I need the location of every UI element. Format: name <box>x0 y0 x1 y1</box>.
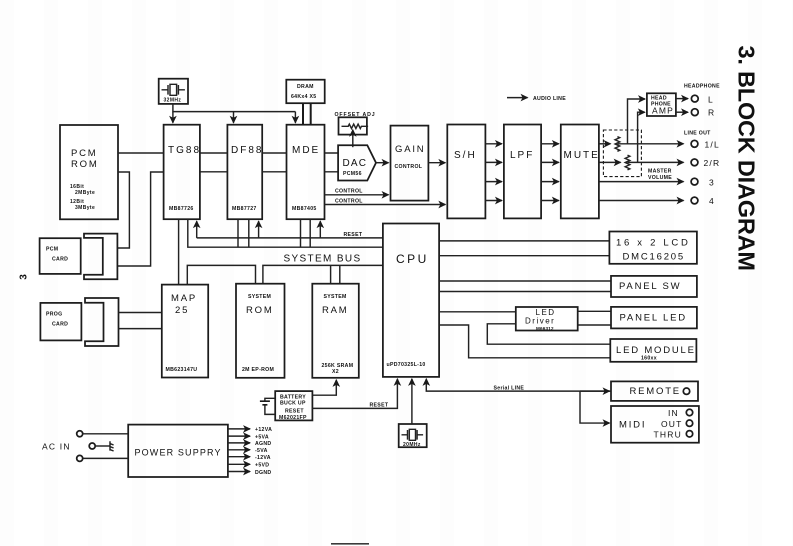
wire DRAM to MDE <box>303 103 311 125</box>
wire power rail -12VA <box>228 455 271 461</box>
wire PCM ROM to TG88 <box>118 152 164 154</box>
wire system bus left segment <box>187 265 255 284</box>
block MIDI IN OUT THRU <box>611 406 699 443</box>
svg-text:160xx: 160xx <box>641 356 657 362</box>
jack line out 3 <box>691 177 715 187</box>
wire data bus chips to CPU <box>188 219 383 247</box>
svg-text:BUCK UP: BUCK UP <box>280 400 306 406</box>
block REMOTE <box>611 381 698 401</box>
wire power rail +5VA <box>228 434 269 440</box>
IC MDE <box>287 125 325 220</box>
svg-text:CONTROL: CONTROL <box>395 164 423 170</box>
svg-text:4: 4 <box>709 196 715 206</box>
svg-text:DF88: DF88 <box>231 145 263 156</box>
wire MUTE out 1 to pot <box>599 143 611 145</box>
svg-text:CONTROL: CONTROL <box>335 199 363 205</box>
svg-text:-12VA: -12VA <box>255 455 271 461</box>
block POWER SUPPRY <box>128 425 228 477</box>
svg-text:DAC: DAC <box>343 158 368 169</box>
svg-text:THRU: THRU <box>654 430 682 440</box>
svg-text:25: 25 <box>175 305 189 316</box>
svg-text:L: L <box>708 95 714 105</box>
svg-text:OUT: OUT <box>661 419 683 429</box>
svg-text:2MByte: 2MByte <box>75 190 95 196</box>
terminal AC hot <box>77 431 129 437</box>
svg-text:3MByte: 3MByte <box>75 205 95 211</box>
label LINE OUT <box>684 131 711 137</box>
wire serial line CPU to REMOTE and MIDI <box>426 379 611 423</box>
svg-text:2/R: 2/R <box>704 158 721 168</box>
svg-text:CARD: CARD <box>52 257 68 263</box>
wire LPF to MUTE 4 channels <box>541 144 559 201</box>
svg-text:64Kx4 X5: 64Kx4 X5 <box>291 94 316 100</box>
wire TG88 to MAP25 <box>178 219 180 284</box>
crystal X2 20MHz <box>399 424 427 448</box>
svg-text:Serial LINE: Serial LINE <box>494 386 525 392</box>
wire pot2 to line out 2/R <box>628 161 684 163</box>
wire PCM card slot to TG88 <box>117 172 163 266</box>
svg-text:PANEL LED: PANEL LED <box>620 312 687 323</box>
svg-text:uPD70325L-10: uPD70325L-10 <box>387 362 426 368</box>
svg-text:CPU: CPU <box>396 252 429 266</box>
connector PROG card slot <box>85 298 119 346</box>
svg-text:X2: X2 <box>332 369 339 375</box>
svg-text:MIDI: MIDI <box>619 420 646 431</box>
block S/H <box>447 125 485 219</box>
wire CPU to LED MODULE <box>439 325 610 358</box>
svg-text:MB87727: MB87727 <box>232 206 257 212</box>
wire system bus right segment <box>263 265 383 283</box>
battery BT1 <box>260 398 275 414</box>
svg-text:VOLUME: VOLUME <box>648 175 672 181</box>
wire MDE to DAC <box>325 153 339 172</box>
svg-text:LED MODULE: LED MODULE <box>616 345 696 356</box>
svg-text:PCM: PCM <box>46 247 58 253</box>
wire LED driver to PANEL LED <box>578 311 611 325</box>
svg-text:IN: IN <box>668 408 679 418</box>
svg-text:MDE: MDE <box>292 145 320 156</box>
svg-text:AC IN: AC IN <box>42 442 71 452</box>
svg-text:MASTER: MASTER <box>648 169 672 175</box>
svg-text:M62021FP: M62021FP <box>279 415 307 421</box>
block LED MODULE 160xx <box>610 339 696 362</box>
block 16 x 2 LCD DMC16205 <box>609 232 697 264</box>
svg-text:-5VA: -5VA <box>255 448 268 454</box>
svg-text:SYSTEM: SYSTEM <box>324 294 347 300</box>
IC DF88 <box>227 125 263 220</box>
wire power rail DGND <box>228 470 272 476</box>
svg-text:GAIN: GAIN <box>395 144 425 155</box>
IC TG88 <box>164 125 201 220</box>
jack line out 4 <box>691 196 715 206</box>
wire RESET bus CPU to TG88 DF88 MDE <box>197 221 383 238</box>
wire 32MHz clock to TG88 DF88 MDE <box>173 104 296 123</box>
svg-text:MUTE: MUTE <box>564 150 600 161</box>
IC LED Driver M66312 <box>516 307 578 331</box>
block SYSTEM RAM <box>312 284 359 378</box>
svg-text:DMC16205: DMC16205 <box>623 252 685 263</box>
svg-text:3. BLOCK DIAGRAM: 3. BLOCK DIAGRAM <box>734 46 760 271</box>
block DRAM 64Kx4 X5 <box>286 80 324 104</box>
wire CPU to LCD <box>439 241 609 256</box>
svg-text:MAP: MAP <box>171 293 197 304</box>
block PANEL SW <box>611 276 697 297</box>
title 3. BLOCK DIAGRAM <box>734 46 760 271</box>
wire power rail +12VA <box>228 427 272 433</box>
svg-text:DGND: DGND <box>255 470 271 476</box>
wire CPU to PANEL SW <box>439 281 611 292</box>
label SYSTEM BUS <box>284 254 362 265</box>
svg-text:PROG: PROG <box>46 312 62 318</box>
master volume dashed box <box>603 130 672 181</box>
svg-text:SYSTEM BUS: SYSTEM BUS <box>284 254 362 265</box>
svg-text:S/H: S/H <box>454 150 477 161</box>
svg-text:+12VA: +12VA <box>255 427 272 433</box>
svg-text:ROM: ROM <box>71 159 99 170</box>
svg-text:CONTROL: CONTROL <box>335 189 363 195</box>
svg-text:M66312: M66312 <box>536 326 554 331</box>
svg-text:MB87405: MB87405 <box>292 206 317 212</box>
jack line out 1/L <box>691 140 720 150</box>
svg-text:RESET: RESET <box>344 232 363 238</box>
wire pot1 to line out 1/L <box>617 143 683 145</box>
block GAIN CONTROL <box>391 126 429 201</box>
svg-text:+5VA: +5VA <box>255 434 269 440</box>
svg-text:AGND: AGND <box>255 441 271 447</box>
block PANEL LED <box>611 307 697 329</box>
svg-text:RESET: RESET <box>285 409 304 415</box>
svg-text:16 x 2 LCD: 16 x 2 LCD <box>616 238 691 249</box>
svg-text:2M EP-ROM: 2M EP-ROM <box>242 367 274 373</box>
wire LED driver to LED MODULE <box>487 324 610 344</box>
svg-text:PCM: PCM <box>71 148 98 159</box>
trimmer OFFSET ADJ <box>335 112 376 135</box>
svg-text:REMOTE: REMOTE <box>630 386 681 397</box>
svg-text:LPF: LPF <box>510 150 534 161</box>
wire MUTE out 4 to line out 4 <box>599 200 684 202</box>
connector PCM card slot <box>84 234 117 280</box>
block PROG CARD <box>40 303 81 341</box>
wire DF88 to MDE <box>262 153 286 172</box>
svg-text:MB623147U: MB623147U <box>166 367 198 373</box>
wire OFFSET ADJ to DAC <box>352 130 354 147</box>
jack headphone R <box>676 108 715 118</box>
potentiometer master volume 1 <box>615 137 620 152</box>
wire power rail -5VA <box>228 448 268 454</box>
wire power rail +5VD <box>228 463 269 469</box>
svg-text:32MHz: 32MHz <box>164 98 182 104</box>
amplifier HEAD PHONE AMP <box>647 93 676 116</box>
svg-text:TG88: TG88 <box>168 145 201 156</box>
scan artifact line at page bottom <box>331 543 369 545</box>
svg-text:LINE OUT: LINE OUT <box>684 131 711 137</box>
svg-text:20MHz: 20MHz <box>403 442 421 448</box>
CPU uPD70325L-10 <box>383 224 439 377</box>
label HEADPHONE <box>684 84 720 90</box>
wire GAIN to S/H <box>428 162 445 164</box>
wire battery backup to SYSTEM RAM <box>312 380 336 395</box>
wire S/H to LPF 4 channels <box>485 144 502 201</box>
legend AUDIO LINE <box>507 96 566 102</box>
block PCM CARD <box>40 238 81 274</box>
crystal X1 32MHz <box>159 79 188 104</box>
svg-text:CARD: CARD <box>52 322 68 328</box>
svg-text:AUDIO LINE: AUDIO LINE <box>533 96 566 102</box>
wire CPU to LED driver <box>439 311 516 313</box>
svg-text:ROM: ROM <box>246 305 274 316</box>
label AC IN <box>42 442 71 452</box>
jack headphone L <box>676 95 714 105</box>
wire 20MHz to CPU <box>411 379 413 424</box>
wire TG88 to DF88 <box>200 153 228 172</box>
block SYSTEM ROM <box>236 284 285 378</box>
block MUTE <box>561 125 600 219</box>
jack line out 2/R <box>691 158 720 168</box>
wire CONTROL MDE to S/H <box>325 199 446 205</box>
svg-text:PCM56: PCM56 <box>343 171 362 177</box>
wire power rail AGND <box>228 441 272 447</box>
wire DAC to GAIN <box>376 162 389 164</box>
svg-text:SYSTEM: SYSTEM <box>248 294 271 300</box>
svg-text:POWER SUPPRY: POWER SUPPRY <box>135 448 222 458</box>
battery backup block M62021FP <box>275 391 312 421</box>
terminal AC neutral <box>77 455 129 461</box>
svg-text:+5VD: +5VD <box>255 463 269 469</box>
wire PCM ROM to PCM card slot <box>118 172 130 248</box>
svg-text:1/L: 1/L <box>705 140 720 150</box>
wire MUTE out 2 to pot <box>599 161 621 163</box>
wire CONTROL MDE to GAIN <box>325 189 389 195</box>
svg-text:PANEL SW: PANEL SW <box>619 281 681 292</box>
svg-text:3: 3 <box>709 177 715 187</box>
svg-text:3: 3 <box>18 274 29 280</box>
terminal AC ground with earth symbol <box>89 441 113 451</box>
svg-text:DRAM: DRAM <box>297 84 314 90</box>
page number 3 <box>18 274 29 280</box>
DAC PCM56 <box>338 145 376 180</box>
wire tap to headphone amp input R <box>638 112 645 162</box>
block PCM ROM <box>60 125 118 219</box>
wire MUTE out 3 to line out 3 <box>599 181 684 183</box>
IC MAP 25 <box>162 285 208 378</box>
svg-text:RAM: RAM <box>322 305 349 316</box>
potentiometer master volume 2 <box>625 155 630 170</box>
svg-text:HEADPHONE: HEADPHONE <box>684 84 720 90</box>
svg-text:R: R <box>708 108 715 118</box>
wire RESET battery backup to CPU <box>312 379 397 409</box>
svg-text:RESET: RESET <box>370 403 389 409</box>
block LPF <box>504 125 541 219</box>
svg-text:MB87726: MB87726 <box>169 206 194 212</box>
wire tap to headphone amp input L <box>628 99 646 144</box>
svg-text:Driver: Driver <box>525 317 555 326</box>
svg-text:AMP: AMP <box>652 106 674 116</box>
wire PROG card slot to MAP25 <box>119 313 162 329</box>
